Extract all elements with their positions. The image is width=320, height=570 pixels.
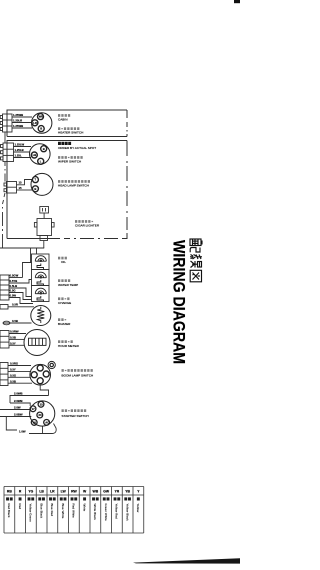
svg-text:17: 17 bbox=[32, 407, 36, 411]
gauge box charge bbox=[32, 286, 50, 302]
svg-text:WATER TEMP: WATER TEMP bbox=[58, 283, 78, 287]
label cabin jp bbox=[58, 114, 60, 117]
svg-text:30: 30 bbox=[38, 413, 42, 417]
svg-text:Red: Red bbox=[18, 504, 22, 510]
wire 0.5GW bbox=[9, 277, 23, 279]
page background bbox=[0, 0, 240, 570]
svg-text:Yellow Red: Yellow Red bbox=[115, 504, 119, 520]
svg-text:2.0WB: 2.0WB bbox=[14, 391, 23, 395]
heater switch SW1 body bbox=[32, 113, 52, 133]
wiper switch pin LB bbox=[31, 152, 37, 158]
wiper switch SW2 body bbox=[30, 144, 51, 165]
cigar lighter right tab bbox=[52, 223, 55, 228]
starter pin 30 bbox=[37, 412, 43, 418]
starter pin 17 bbox=[30, 406, 36, 412]
svg-text:0.5B: 0.5B bbox=[10, 379, 16, 383]
svg-text:0.5W: 0.5W bbox=[10, 294, 17, 298]
svg-text:15: 15 bbox=[19, 181, 23, 185]
svg-text:HEAD LAMP SWITCH: HEAD LAMP SWITCH bbox=[58, 184, 89, 188]
svg-text:WB: WB bbox=[93, 490, 99, 494]
svg-text:Red Black: Red Black bbox=[7, 504, 11, 519]
wire headlamp lower bbox=[17, 189, 33, 191]
svg-text:2.0WB: 2.0WB bbox=[14, 399, 23, 403]
svg-text:HEATER SWITCH: HEATER SWITCH bbox=[58, 131, 83, 135]
buzzer bullet terminal bbox=[3, 321, 10, 325]
svg-text:0.5RG: 0.5RG bbox=[10, 362, 18, 366]
svg-text:YG: YG bbox=[28, 490, 33, 494]
svg-text:1.0W: 1.0W bbox=[19, 430, 26, 434]
svg-text:0.5RW: 0.5RW bbox=[10, 330, 19, 334]
svg-text:LW: LW bbox=[61, 490, 67, 494]
cigar lighter body bbox=[37, 219, 52, 236]
heater switch pin LR bbox=[32, 120, 38, 126]
wire 0.5RW hour bbox=[9, 333, 26, 335]
cigar lighter base connector bbox=[40, 236, 48, 241]
svg-text:Yellow: Yellow bbox=[136, 504, 140, 514]
headlamp pin B bbox=[32, 186, 38, 192]
svg-text:WB: WB bbox=[39, 115, 44, 119]
svg-text:0.5G: 0.5G bbox=[10, 373, 16, 377]
connector CN1 (heater) bbox=[3, 114, 13, 132]
wire 1.25WB heater bbox=[12, 116, 32, 118]
svg-text:HOUR METER: HOUR METER bbox=[58, 344, 80, 348]
starter pin 15 bbox=[38, 401, 44, 407]
wire 0.5W bbox=[9, 298, 33, 304]
dash panel box B1 (heater) bbox=[7, 110, 127, 137]
connector CN2 (wiper) bbox=[3, 143, 14, 162]
svg-text:Red White: Red White bbox=[72, 504, 76, 519]
buzzer coil zigzag bbox=[37, 307, 44, 323]
svg-text:0.5YB: 0.5YB bbox=[10, 279, 18, 283]
svg-text:ORDER BY ACTUAL SPOT: ORDER BY ACTUAL SPOT bbox=[58, 146, 96, 150]
boom pin Y bbox=[31, 372, 37, 378]
wire 1.25LW wiper bbox=[14, 146, 32, 148]
svg-text:2.0BW: 2.0BW bbox=[14, 412, 23, 416]
boom lamp switch SW4 body bbox=[30, 361, 55, 385]
wire 2.0BW starter fourth bbox=[0, 416, 31, 418]
wire 0.5Y hour bbox=[9, 344, 25, 346]
svg-text:RW: RW bbox=[71, 490, 77, 494]
svg-text:B: B bbox=[43, 147, 45, 151]
svg-text:1.25LR: 1.25LR bbox=[13, 119, 22, 123]
svg-text:1.25WB: 1.25WB bbox=[13, 113, 23, 117]
wire 0.5B boom bbox=[8, 382, 32, 384]
wire 1.25LR heater bbox=[12, 122, 32, 124]
wiper switch pin B bbox=[41, 146, 47, 152]
feed wire from cigar lighter bbox=[0, 248, 44, 254]
wire 0.5B buzzer bbox=[3, 322, 32, 324]
label heater switch jp bbox=[58, 127, 60, 130]
svg-text:White Black: White Black bbox=[93, 504, 97, 521]
cigar lighter stem bbox=[43, 213, 45, 219]
svg-text:AC: AC bbox=[45, 421, 49, 425]
wire 1.25LB wiper bbox=[14, 151, 30, 153]
hour meter odometer bbox=[29, 338, 47, 345]
svg-text:LR: LR bbox=[50, 490, 55, 494]
svg-text:White: White bbox=[82, 504, 86, 512]
label buzzer jp bbox=[58, 318, 60, 321]
svg-text:0.5G: 0.5G bbox=[10, 289, 16, 293]
boom pin G bbox=[37, 365, 43, 371]
label boom jp bbox=[62, 369, 64, 372]
wire 0.5Y boom bbox=[8, 370, 31, 372]
svg-text:RB: RB bbox=[7, 490, 12, 494]
hour meter M1 body bbox=[24, 330, 50, 356]
headlamp pin T bbox=[32, 177, 38, 183]
svg-text:BUZZER: BUZZER bbox=[58, 322, 71, 326]
svg-text:50: 50 bbox=[33, 421, 37, 425]
title haisenzu jp bbox=[190, 239, 202, 282]
svg-text:WIPER SWITCH: WIPER SWITCH bbox=[58, 160, 81, 164]
svg-text:Blue Black: Blue Black bbox=[39, 504, 43, 519]
svg-text:0.5GW: 0.5GW bbox=[10, 274, 19, 278]
gauge box oil bbox=[32, 254, 50, 270]
wire headlamp upper bbox=[17, 180, 33, 185]
svg-text:1.25L: 1.25L bbox=[15, 154, 22, 158]
boom to starter link bbox=[40, 385, 48, 396]
connector pins hour meter bbox=[0, 331, 9, 349]
svg-text:STARTER SWITCH: STARTER SWITCH bbox=[62, 414, 89, 418]
svg-text:15: 15 bbox=[19, 186, 23, 190]
heater switch pin WB bbox=[38, 114, 44, 120]
connector CN3 (headlamp) bbox=[7, 182, 17, 194]
svg-text:Green White: Green White bbox=[104, 504, 108, 522]
charge gauge glyph bbox=[35, 288, 46, 301]
boom pilot lamp bbox=[48, 361, 55, 368]
svg-text:CABIN: CABIN bbox=[58, 117, 67, 121]
svg-text:GW: GW bbox=[103, 490, 110, 494]
svg-text:CIGAR LIGHTER: CIGAR LIGHTER bbox=[75, 224, 100, 228]
wire 0.5G bbox=[9, 293, 32, 300]
svg-text:0.5Y: 0.5Y bbox=[10, 368, 16, 372]
svg-text:0.5R: 0.5R bbox=[12, 303, 18, 307]
wire 1.25WB heater lower bbox=[12, 127, 32, 129]
starter pin 50 bbox=[31, 420, 37, 426]
svg-text:YB: YB bbox=[125, 490, 130, 494]
svg-text:YR: YR bbox=[115, 490, 120, 494]
svg-text:OIL: OIL bbox=[61, 260, 66, 264]
svg-text:WIRING DIAGRAM: WIRING DIAGRAM bbox=[170, 240, 188, 364]
label cigar jp bbox=[75, 220, 77, 223]
label starter jp bbox=[62, 409, 64, 412]
wire oil input bbox=[23, 263, 32, 278]
cigar lighter plug cap bbox=[40, 207, 49, 214]
connector pins gauges bbox=[0, 275, 9, 300]
dash panel box B2 (wiper/headlamp/cigar) bbox=[7, 141, 127, 239]
wire 0.5B hour bbox=[9, 338, 24, 340]
svg-text:0.5Y: 0.5Y bbox=[10, 341, 16, 345]
svg-text:2.0W: 2.0W bbox=[14, 405, 21, 409]
svg-text:B: B bbox=[40, 127, 42, 131]
wiper switch pin L bbox=[38, 158, 44, 164]
buzzer BZ1 body bbox=[31, 306, 51, 326]
wire 1.25L wiper bbox=[14, 157, 32, 159]
svg-text:LB: LB bbox=[33, 153, 37, 157]
svg-text:1.25LW: 1.25LW bbox=[15, 143, 25, 147]
gauge box water temp bbox=[32, 270, 50, 286]
headlamp switch SW3 body bbox=[31, 173, 53, 195]
svg-text:15: 15 bbox=[40, 402, 44, 406]
heater switch pin B bbox=[38, 126, 44, 132]
svg-text:BOOM LAMP SWITCH: BOOM LAMP SWITCH bbox=[62, 374, 94, 378]
svg-text:0.5B: 0.5B bbox=[10, 336, 16, 340]
label water temp jp bbox=[58, 279, 60, 282]
starter switch SW5 body bbox=[30, 401, 55, 426]
label wiper jp bbox=[58, 156, 60, 159]
wire 0.5YB bbox=[9, 280, 32, 284]
svg-text:Yellow Black: Yellow Black bbox=[125, 504, 129, 522]
svg-text:1.25LB: 1.25LB bbox=[15, 148, 24, 152]
label hour meter jp bbox=[58, 340, 60, 343]
svg-text:CHARGE: CHARGE bbox=[58, 301, 71, 305]
svg-text:Blue Red: Blue Red bbox=[50, 504, 54, 517]
oil gauge glyph bbox=[35, 256, 46, 270]
connector pins boom bbox=[0, 363, 8, 386]
scan edge wedge bottom right bbox=[133, 558, 240, 563]
svg-text:0.5LB: 0.5LB bbox=[10, 284, 18, 288]
svg-text:Blue White: Blue White bbox=[61, 504, 65, 519]
scan mark top right bbox=[234, 0, 240, 3]
starter pin AC bbox=[44, 420, 50, 426]
cigar lighter down lead bbox=[43, 241, 45, 249]
boom pin B bbox=[37, 378, 43, 384]
harness bus left bbox=[3, 133, 33, 249]
svg-text:T: T bbox=[34, 178, 36, 182]
color code table frame bbox=[4, 487, 144, 534]
svg-text:Yellow Green: Yellow Green bbox=[29, 504, 33, 523]
svg-text:B: B bbox=[34, 187, 36, 191]
wire 0.5RG boom bbox=[8, 365, 31, 367]
feed wire to oil gauge bbox=[30, 248, 32, 263]
svg-text:LB: LB bbox=[39, 490, 44, 494]
svg-text:0.5B: 0.5B bbox=[12, 319, 18, 323]
wire 0.5LB bbox=[9, 288, 32, 297]
wire 0.5G boom bbox=[8, 376, 30, 378]
buzzer pin bbox=[0, 305, 8, 310]
wire 2.0WB starter second bbox=[10, 403, 30, 406]
starter bottom loop bbox=[6, 417, 17, 431]
boom pin D bbox=[43, 371, 49, 377]
wire 0.5R buzzer bbox=[8, 306, 34, 308]
label headlamp jp bbox=[58, 180, 60, 183]
label order jp (bold) bbox=[58, 142, 61, 145]
svg-text:1.25WB: 1.25WB bbox=[13, 124, 23, 128]
water temp gauge glyph bbox=[35, 272, 46, 285]
wire 2.0W starter third bbox=[0, 409, 30, 411]
label charge jp bbox=[58, 297, 60, 300]
svg-text:L: L bbox=[40, 159, 42, 163]
label oil jp bbox=[58, 257, 60, 260]
cigar lighter left tab bbox=[34, 223, 37, 228]
wire 2.0WB starter top bbox=[10, 396, 49, 404]
svg-text:LR: LR bbox=[33, 121, 37, 125]
